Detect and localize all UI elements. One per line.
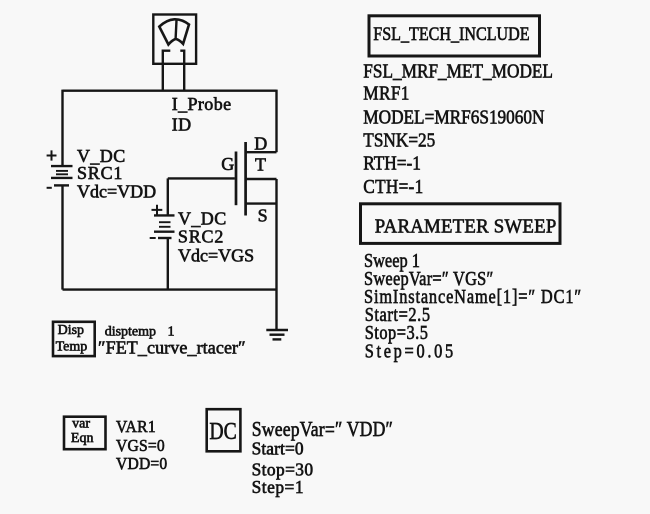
svg-text:I_Probe: I_Probe bbox=[172, 94, 232, 114]
svg-text:CTH=-1: CTH=-1 bbox=[363, 176, 423, 197]
svg-text:ID: ID bbox=[172, 115, 192, 135]
wire: source/body vertical down to ground bbox=[275, 179, 277, 330]
svg-text:″FET_curve_rtacer″: ″FET_curve_rtacer″ bbox=[98, 338, 246, 358]
svg-text:Step=0.05: Step=0.05 bbox=[365, 340, 456, 362]
svg-text:G: G bbox=[221, 154, 234, 174]
svg-text:Disp: Disp bbox=[58, 323, 84, 338]
wire: drain vertical from top rail bbox=[275, 90, 277, 153]
V_DC source SRC1 battery plates bbox=[51, 166, 73, 185]
PARAMETER SWEEP box bbox=[361, 204, 561, 244]
svg-text:Eqn: Eqn bbox=[71, 431, 94, 446]
svg-text:TSNK=25: TSNK=25 bbox=[363, 130, 435, 151]
svg-text:MODEL=MRF6S19060N: MODEL=MRF6S19060N bbox=[363, 107, 544, 128]
wire: top horizontal rail bbox=[63, 89, 277, 91]
svg-text:V_DC: V_DC bbox=[178, 208, 227, 228]
svg-text:S: S bbox=[258, 205, 268, 225]
wire: left vertical from top rail to SRC1 + bbox=[61, 90, 63, 166]
SRC1 minus sign bbox=[47, 187, 52, 189]
DispTemp icon box bbox=[53, 322, 95, 356]
svg-text:SRC2: SRC2 bbox=[178, 226, 224, 246]
svg-text:VGS=0: VGS=0 bbox=[116, 436, 165, 456]
svg-text:FSL_MRF_MET_MODEL: FSL_MRF_MET_MODEL bbox=[363, 61, 553, 82]
SRC2 plus sign bbox=[152, 205, 163, 215]
V_DC source SRC2 battery plates bbox=[154, 215, 175, 238]
wire: SRC2 - down to bottom rail bbox=[167, 238, 169, 290]
svg-text:Vdc=VDD: Vdc=VDD bbox=[77, 181, 156, 201]
transistor T drain stub bbox=[246, 151, 277, 153]
transistor T body stub bbox=[246, 178, 277, 180]
ground symbol bbox=[266, 330, 288, 339]
svg-text:Step=1: Step=1 bbox=[252, 477, 304, 497]
wire: gate lead from SRC2 to gate bbox=[168, 177, 235, 179]
probe pin 2 (right terminal) bbox=[180, 51, 184, 91]
svg-text:VAR1: VAR1 bbox=[116, 416, 156, 436]
svg-text:VDD=0: VDD=0 bbox=[116, 454, 167, 474]
transistor T gate bar bbox=[235, 152, 238, 206]
SRC2 minus sign bbox=[150, 237, 156, 239]
svg-text:Temp: Temp bbox=[56, 339, 88, 354]
FSL_TECH_INCLUDE box bbox=[369, 16, 540, 56]
svg-text:Start=0: Start=0 bbox=[252, 438, 304, 458]
svg-text:DC: DC bbox=[209, 417, 236, 444]
svg-text:MRF1: MRF1 bbox=[363, 83, 409, 104]
svg-text:Vdc=VGS: Vdc=VGS bbox=[178, 245, 254, 265]
wire: SRC1 - down to bottom rail bbox=[61, 185, 63, 289]
svg-text:FSL_TECH_INCLUDE: FSL_TECH_INCLUDE bbox=[373, 24, 529, 44]
wire: bottom horizontal rail bbox=[63, 288, 277, 290]
DC controller box bbox=[207, 409, 241, 451]
probe pin 1 (left terminal) bbox=[163, 51, 171, 91]
wire: SRC2 + up to gate lead bbox=[167, 178, 169, 215]
transistor T channel bar bbox=[244, 142, 247, 216]
ammeter I_Probe symbol box bbox=[153, 15, 196, 64]
meter needle bbox=[174, 20, 177, 39]
SRC1 plus sign bbox=[47, 150, 57, 160]
svg-text:T: T bbox=[255, 155, 266, 175]
svg-text:SRC1: SRC1 bbox=[77, 163, 123, 183]
meter fan outline bbox=[159, 19, 189, 44]
svg-text:PARAMETER SWEEP: PARAMETER SWEEP bbox=[375, 216, 557, 238]
svg-text:RTH=-1: RTH=-1 bbox=[363, 153, 421, 174]
svg-text:var: var bbox=[72, 416, 90, 431]
transistor T source stub bbox=[246, 202, 277, 204]
var Eqn icon box bbox=[64, 417, 106, 450]
svg-text:D: D bbox=[254, 134, 267, 154]
